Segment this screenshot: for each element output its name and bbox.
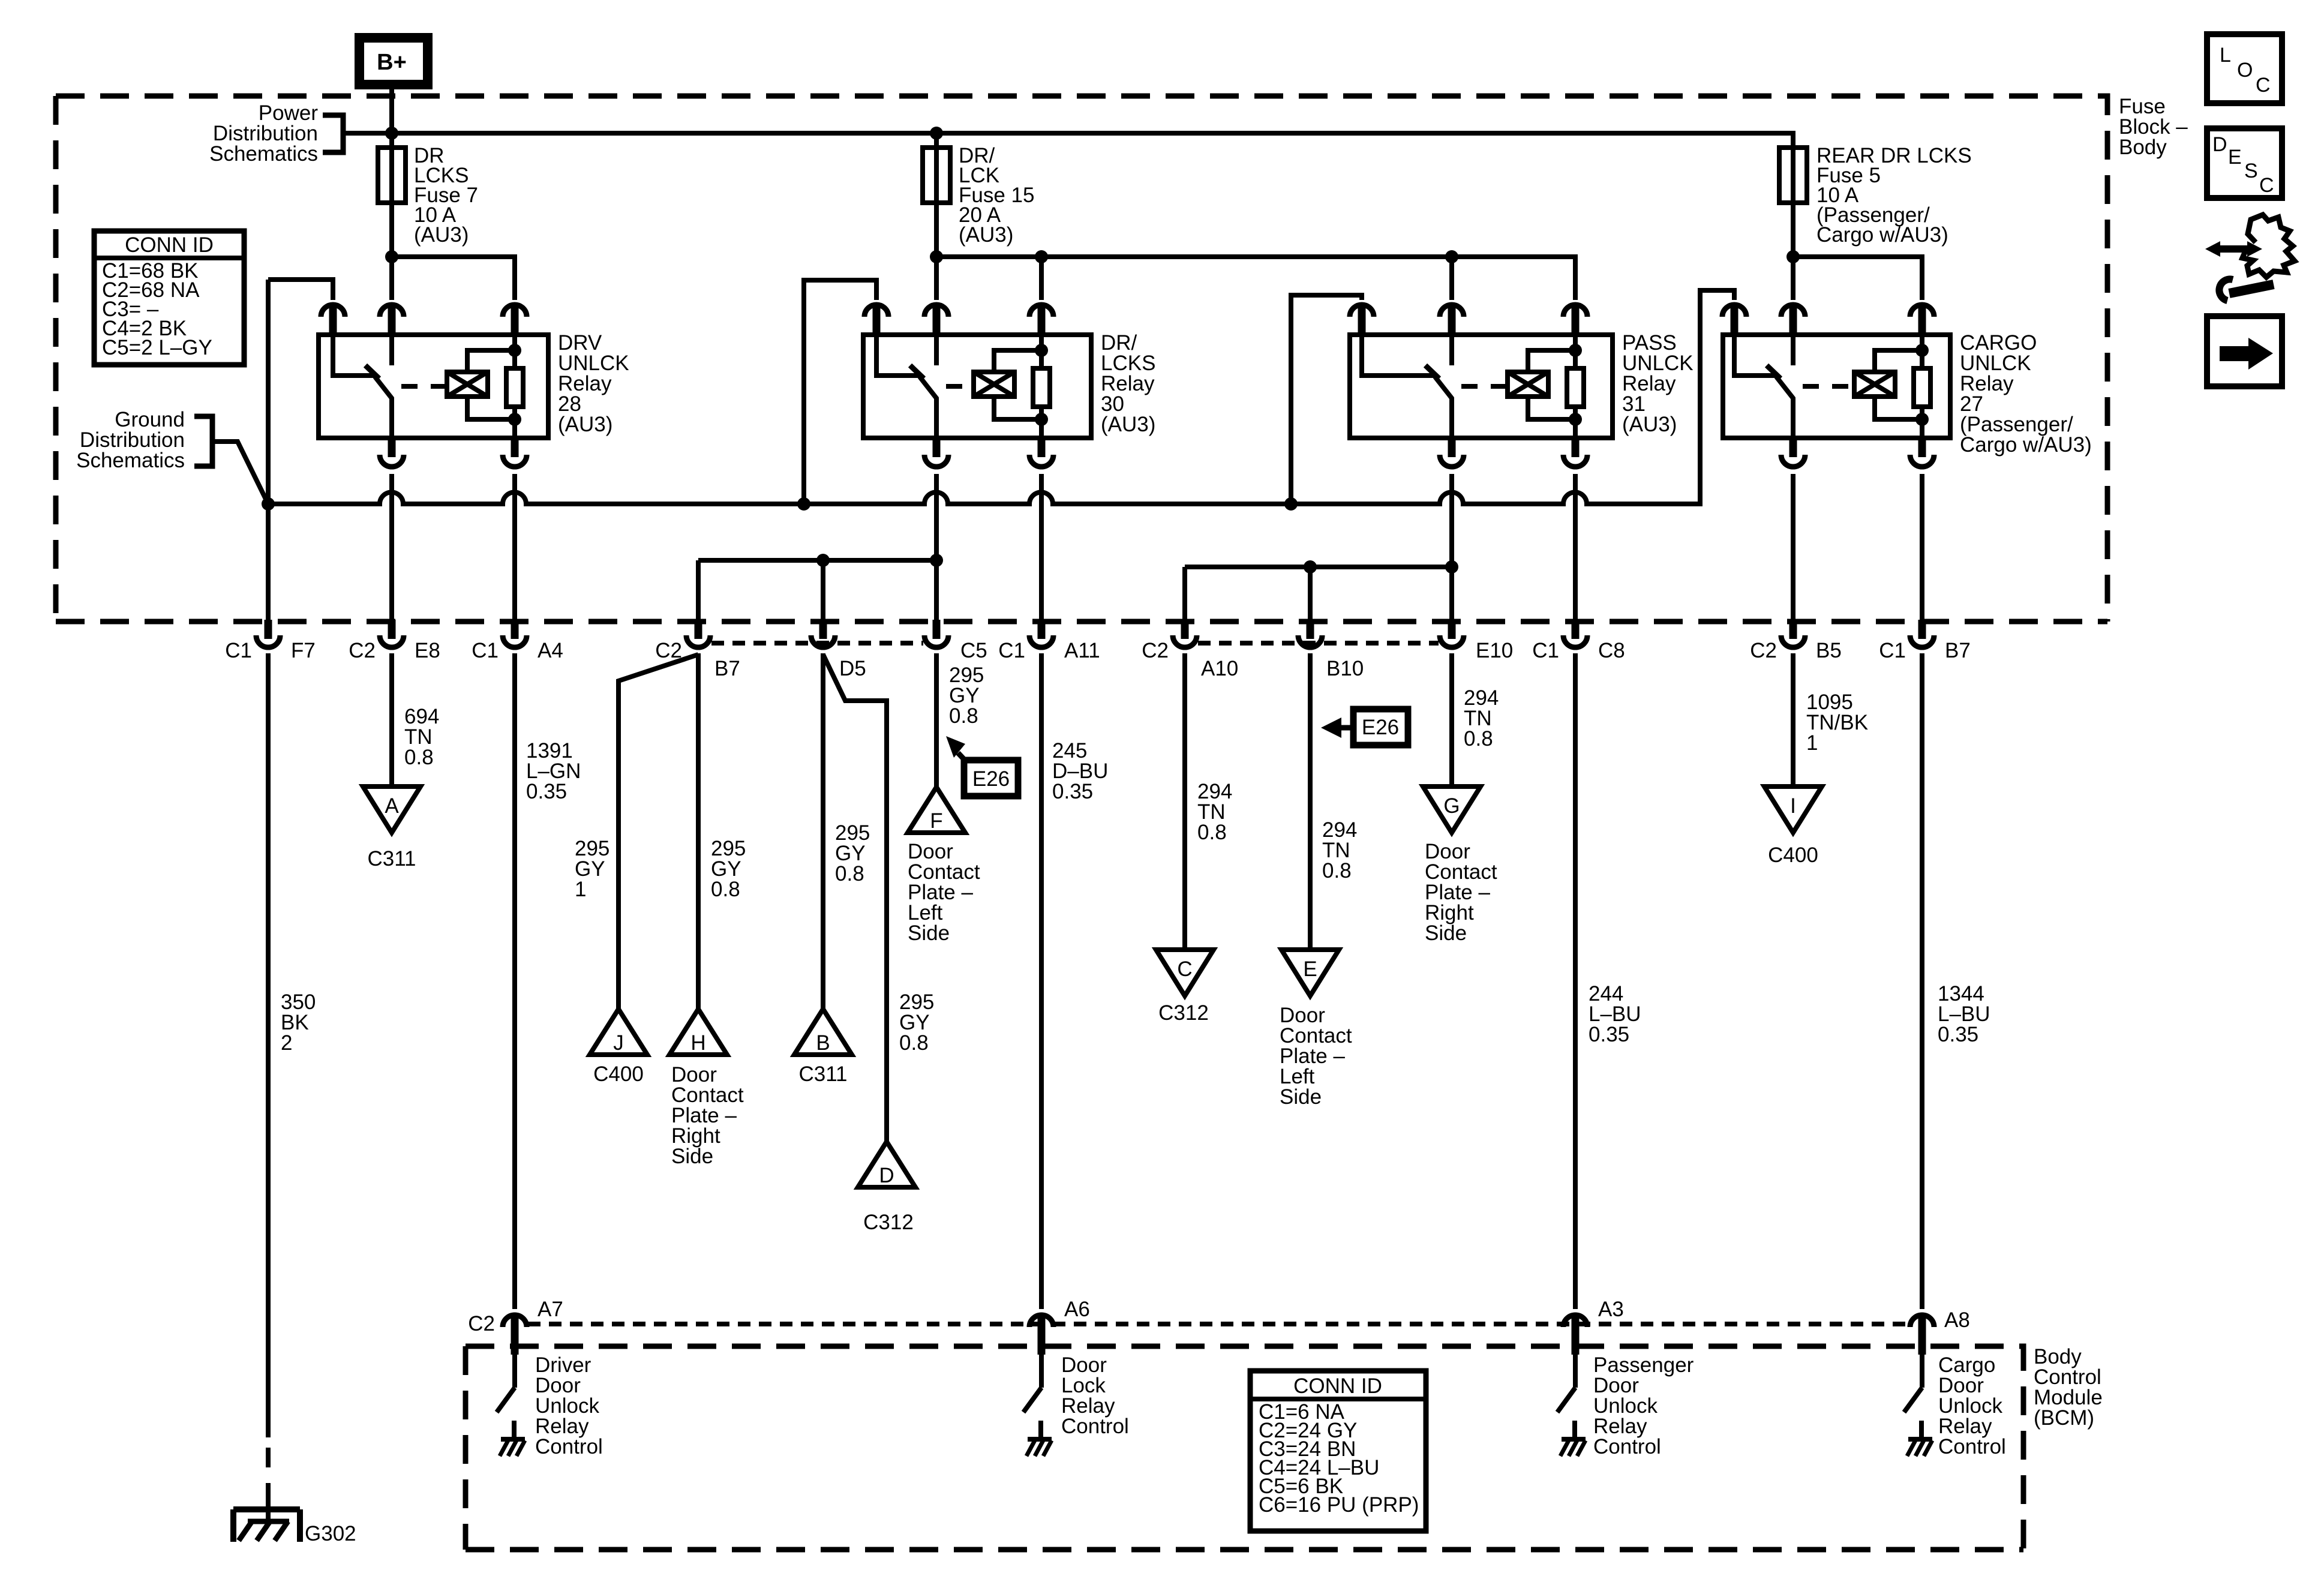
svg-text:G302: G302 xyxy=(305,1522,356,1545)
wire: fuse 7 output to relay 28 pins xyxy=(392,203,515,300)
label: door lock relay control xyxy=(1061,1353,1129,1438)
wire: B+ to power distribution line xyxy=(389,89,394,148)
wire: fuse 5 output to relay 27 pins xyxy=(1793,203,1922,300)
svg-text:0.35: 0.35 xyxy=(1938,1023,1978,1046)
svg-text:A4: A4 xyxy=(538,639,563,662)
wire: relay 30 switch output to C5 xyxy=(934,474,939,622)
svg-text:1: 1 xyxy=(575,878,586,901)
connector pin A7 (BCM) xyxy=(503,1315,527,1355)
svg-text:C6=16 PU (PRP): C6=16 PU (PRP) xyxy=(1259,1493,1419,1517)
splice connector J (C400) xyxy=(590,1009,647,1055)
junction: K28 (DRV UNLCK Relay 28) coil bottom node xyxy=(508,413,521,426)
relay coil of K31 (PASS UNLCK Relay 31) xyxy=(1508,350,1575,419)
svg-text:F7: F7 xyxy=(291,639,316,662)
connector pin: K30 (DR/LCKS Relay 30) top pin 85 coil xyxy=(1029,305,1053,335)
connector pin A11 (fuse block bottom) xyxy=(1029,620,1053,647)
svg-text:E8: E8 xyxy=(415,639,440,662)
label: circuit 1344 L-BU 0.35 xyxy=(1938,982,1990,1046)
switch: door lock relay control xyxy=(1023,1355,1052,1456)
wire: relay 30 coil output to A11 xyxy=(1039,474,1044,622)
connector pin A3 (BCM) xyxy=(1563,1315,1587,1355)
label: Power Distribution Schematics xyxy=(209,101,318,166)
svg-text:(AU3): (AU3) xyxy=(1622,413,1677,436)
junction: C5 wire branch node xyxy=(930,554,943,567)
relay K31 (PASS UNLCK Relay 31) xyxy=(1350,335,1613,438)
wire 694 TN: E8 to splice A xyxy=(389,653,394,789)
connector pin: K28 (DRV UNLCK Relay 28) top pin 30 common xyxy=(380,305,404,335)
in-line connector dashed link A10..E10 xyxy=(1198,641,1439,646)
splice connector C (C312) xyxy=(1156,950,1214,996)
label: circuit 295 GY 0.8 (D) xyxy=(899,990,934,1055)
bracket: power distribution xyxy=(323,115,343,152)
svg-text:L: L xyxy=(2220,44,2231,67)
connector pin: K31 (PASS UNLCK Relay 31) top pin 86 feed xyxy=(1350,305,1374,335)
connector pin: K30 (DR/LCKS Relay 30) top pin 86 feed xyxy=(864,305,888,335)
svg-text:C5=2 L–GY: C5=2 L–GY xyxy=(102,336,212,359)
junction: ground bus to relay 30 xyxy=(797,497,810,511)
wire 295 GY: B7 to splice H xyxy=(696,653,701,1009)
svg-text:G: G xyxy=(1443,794,1460,818)
svg-text:(AU3): (AU3) xyxy=(959,223,1013,247)
connector pin E8 (fuse block bottom) xyxy=(380,620,404,647)
wire: relay 31 pin feed from ground bus xyxy=(1291,295,1362,504)
junction: fuse 7 output node xyxy=(385,250,398,263)
wire 294 TN: E10 to connector G xyxy=(1449,653,1454,789)
splice connector E (door contact plate left) xyxy=(1281,950,1339,996)
svg-text:C: C xyxy=(1177,957,1192,981)
wire: relay 28 switch output to E8 xyxy=(389,474,394,622)
connector I (C400) xyxy=(1764,786,1822,833)
junction: ground bus at relay 28 feed xyxy=(262,497,275,511)
svg-text:Cargo w/AU3): Cargo w/AU3) xyxy=(1960,433,2092,457)
svg-text:B7: B7 xyxy=(714,657,740,680)
BCM in-line connector dashed link A7..A8 xyxy=(528,1322,1909,1326)
svg-text:C1: C1 xyxy=(998,639,1025,662)
label: circuit 294 TN 0.8 (C) xyxy=(1197,780,1232,844)
splice connector H (door contact plate right) xyxy=(669,1009,727,1055)
svg-text:A10: A10 xyxy=(1201,657,1238,680)
connector pin: K31 (PASS UNLCK Relay 31) bottom switch output xyxy=(1440,437,1464,467)
label: cargo door unlock relay control xyxy=(1938,1353,2006,1458)
svg-text:0.35: 0.35 xyxy=(1052,780,1093,803)
switch: passenger door unlock relay control xyxy=(1557,1355,1586,1456)
junction: relay 30 coil tap xyxy=(1035,250,1048,263)
svg-text:CONN ID: CONN ID xyxy=(125,233,214,257)
label: circuit 294 TN 0.8 (E) xyxy=(1322,818,1357,882)
label: circuit 1095 TN/BK 1 xyxy=(1806,691,1868,755)
svg-text:2: 2 xyxy=(281,1031,292,1055)
wire 350 BK: F7 to ground G302 xyxy=(266,653,271,1437)
connector pin A10 (fuse block bottom) xyxy=(1173,620,1197,647)
label: fuse F5 (REAR DR LCKS Fuse 5 10A) value xyxy=(1816,144,1972,247)
svg-text:F: F xyxy=(930,809,942,833)
junction: B10 branch node xyxy=(1304,560,1317,574)
switch contact of K31 (PASS UNLCK Relay 31) xyxy=(1362,336,1452,438)
connector pin B5 (fuse block bottom) xyxy=(1781,620,1805,647)
connector pin B7 (fuse block bottom) xyxy=(686,620,710,647)
svg-text:I: I xyxy=(1790,794,1796,818)
icon: DESC box xyxy=(2207,128,2282,198)
svg-text:0.8: 0.8 xyxy=(1464,727,1493,751)
svg-text:C1: C1 xyxy=(1879,639,1906,662)
label: circuit 295 GY 1 xyxy=(575,837,609,901)
junction: B+ / Fuse 7 tap xyxy=(385,127,398,140)
svg-text:Side: Side xyxy=(671,1145,713,1168)
svg-text:A: A xyxy=(385,794,399,818)
label: relay K28 (DRV UNLCK Relay 28) name xyxy=(558,331,629,436)
svg-text:C5: C5 xyxy=(960,639,987,662)
junction: fuse 15 output node xyxy=(930,250,943,263)
svg-text:C312: C312 xyxy=(1158,1001,1209,1025)
label: circuit 350 BK 2 xyxy=(281,990,316,1055)
label: relay K27 (CARGO UNLCK Relay 27) name xyxy=(1960,331,2092,457)
wire 295 GY: B7 branch to splice J xyxy=(618,655,698,1009)
label: passenger door unlock relay control xyxy=(1593,1353,1694,1458)
wire: ground bracket pointer xyxy=(212,442,268,504)
svg-text:E10: E10 xyxy=(1476,639,1513,662)
fuse F7 (DR LCKS Fuse 7 10A) xyxy=(378,148,406,203)
svg-text:0.8: 0.8 xyxy=(711,878,740,901)
label: Door Contact Plate - Right Side (H) xyxy=(671,1063,744,1168)
wire 1344 L-BU: B7 to BCM A8 xyxy=(1920,653,1924,1309)
svg-text:D: D xyxy=(2212,133,2227,156)
fuse F5 (REAR DR LCKS Fuse 5 10A) xyxy=(1779,148,1807,203)
svg-text:A7: A7 xyxy=(538,1298,563,1321)
wire 295 GY: D5 to splice B xyxy=(821,653,825,1009)
wire 294 TN: A10 to splice C xyxy=(1182,653,1187,953)
connector pin B7 (fuse block bottom) xyxy=(1910,620,1934,647)
wire: relay 28 coil output to A4 xyxy=(512,474,517,622)
connector pin F7 (fuse block bottom) xyxy=(256,620,280,647)
label: Door Contact Plate - Right Side (G) xyxy=(1425,840,1497,945)
relay K27 (CARGO UNLCK Relay 27) actuator dashed link xyxy=(1803,384,1852,389)
wire: relay 28 pin feed from ground wire xyxy=(268,280,333,300)
svg-text:C2: C2 xyxy=(1750,639,1777,662)
svg-text:J: J xyxy=(613,1031,624,1055)
svg-text:E: E xyxy=(1303,957,1317,981)
junction: ground bus to relay 31 xyxy=(1284,497,1298,511)
wire 295 GY: C5 to connector F xyxy=(934,653,939,787)
svg-text:(BCM): (BCM) xyxy=(2034,1406,2094,1430)
resistor (suppression) of K28 (DRV UNLCK Relay 28) xyxy=(506,336,523,438)
ground G302 xyxy=(233,1509,300,1542)
wire: fuse 15 output to relay 30 and relay 31 pins xyxy=(936,203,1575,300)
connector pin D5 (fuse block bottom) xyxy=(811,620,835,647)
svg-text:O: O xyxy=(2237,59,2253,82)
label: Fuse Block - Body xyxy=(2119,95,2188,159)
svg-text:B7: B7 xyxy=(1945,639,1971,662)
svg-text:D5: D5 xyxy=(839,657,866,680)
svg-text:C311: C311 xyxy=(798,1062,847,1086)
svg-text:0.8: 0.8 xyxy=(1322,859,1352,882)
connector pin E10 (fuse block bottom) xyxy=(1440,620,1464,647)
connector pin C8 (fuse block bottom) xyxy=(1563,620,1587,647)
svg-text:D: D xyxy=(879,1164,894,1187)
svg-text:B+: B+ xyxy=(377,50,407,75)
splice connector D (C312) xyxy=(858,1142,915,1187)
wire: dashed portion to G302 xyxy=(266,1448,271,1500)
BCM dashed outline (Body Control Module) xyxy=(466,1346,2023,1550)
svg-text:Schematics: Schematics xyxy=(209,142,318,166)
svg-text:(AU3): (AU3) xyxy=(414,223,469,247)
label: circuit 694 TN 0.8 xyxy=(404,705,439,769)
svg-text:E26: E26 xyxy=(972,767,1010,791)
wire: relay 30 pin feed from ground bus xyxy=(804,280,876,504)
callout E26 with arrow (F wire) xyxy=(946,736,1018,796)
svg-text:0.8: 0.8 xyxy=(949,704,978,728)
wire 294 TN: B10 to splice E xyxy=(1308,653,1313,953)
label: relay K30 (DR/LCKS Relay 30) name xyxy=(1101,331,1155,436)
wire: relay 27 switch output to B5 xyxy=(1791,474,1795,622)
junction: relay 31 switch tap xyxy=(1445,250,1458,263)
label: circuit 245 D-BU 0.35 xyxy=(1052,739,1108,803)
svg-text:B5: B5 xyxy=(1816,639,1842,662)
wire: relay 31 switch output to E10 xyxy=(1449,474,1454,622)
icon: forward arrow box xyxy=(2207,316,2282,386)
svg-text:Side: Side xyxy=(1425,921,1467,945)
relay coil of K30 (DR/LCKS Relay 30) xyxy=(974,350,1041,419)
resistor (suppression) of K27 (CARGO UNLCK Relay 27) xyxy=(1914,336,1930,438)
svg-text:0.8: 0.8 xyxy=(899,1031,929,1055)
connector pin: K31 (PASS UNLCK Relay 31) top pin 85 coil xyxy=(1563,305,1587,335)
relay K27 (CARGO UNLCK Relay 27) xyxy=(1723,335,1950,438)
wire: relay 27 coil output to B7 xyxy=(1920,474,1924,622)
svg-text:B: B xyxy=(816,1031,830,1055)
resistor (suppression) of K30 (DR/LCKS Relay 30) xyxy=(1033,336,1050,438)
junction: K27 (CARGO UNLCK Relay 27) coil bottom node xyxy=(1915,413,1929,426)
wire: fuse 15 feed from power line xyxy=(934,133,939,148)
junction: K30 (DR/LCKS Relay 30) coil bottom node xyxy=(1035,413,1048,426)
svg-text:C400: C400 xyxy=(593,1062,644,1086)
svg-text:C: C xyxy=(2259,174,2274,197)
connector pin: K28 (DRV UNLCK Relay 28) top pin 85 coil xyxy=(503,305,527,335)
svg-text:Body: Body xyxy=(2119,136,2167,159)
label: relay K31 (PASS UNLCK Relay 31) name xyxy=(1622,331,1694,436)
svg-text:E26: E26 xyxy=(1362,716,1399,739)
splice connector B (C311) xyxy=(794,1009,852,1055)
fuse F15 (DR/LCK Fuse 15 20A) xyxy=(923,148,950,203)
svg-text:C: C xyxy=(2256,74,2271,97)
svg-text:(AU3): (AU3) xyxy=(558,413,612,436)
label: circuit 295 GY 0.8 (F) xyxy=(949,664,984,728)
label: circuit 244 L-BU 0.35 xyxy=(1589,982,1641,1046)
connector pin: K28 (DRV UNLCK Relay 28) top pin 86 feed xyxy=(321,305,345,335)
label: circuit 295 GY 0.8 (H) xyxy=(711,837,746,901)
junction: Fuse 15 tap xyxy=(930,127,943,140)
svg-text:C400: C400 xyxy=(1768,843,1818,867)
svg-text:A8: A8 xyxy=(1944,1308,1970,1332)
resistor (suppression) of K31 (PASS UNLCK Relay 31) xyxy=(1567,336,1584,438)
svg-text:1: 1 xyxy=(1806,731,1818,755)
wire: ground bus inside fuse block xyxy=(268,290,1734,504)
wire 244 L-BU: C8 to BCM A3 xyxy=(1573,653,1578,1309)
svg-text:C2: C2 xyxy=(349,639,376,662)
table: CONN ID (fuse block connectors) xyxy=(94,231,244,365)
svg-text:CONN ID: CONN ID xyxy=(1293,1374,1382,1398)
svg-text:A11: A11 xyxy=(1064,639,1100,662)
label: fuse F15 (DR/LCK Fuse 15 20A) value xyxy=(959,144,1034,247)
svg-text:B10: B10 xyxy=(1326,657,1364,680)
svg-text:E: E xyxy=(2228,146,2242,169)
label: Door Contact Plate - Left Side (F) xyxy=(908,840,980,945)
fuse block - body dashed outline xyxy=(56,96,2107,622)
switch contact of K30 (DR/LCKS Relay 30) xyxy=(876,336,937,438)
in-line connector dashed link B7..C5 xyxy=(711,641,923,646)
power symbol B+ xyxy=(359,38,428,85)
wire 1391 L-GN: A4 to BCM A7 xyxy=(512,653,517,1309)
callout E26 with arrow (B10 wire) xyxy=(1321,709,1408,745)
connector pin: K30 (DR/LCKS Relay 30) bottom switch output xyxy=(924,437,948,467)
switch: cargo door unlock relay control xyxy=(1904,1355,1932,1456)
wire: branch to A10/B10 connector pins xyxy=(1185,567,1452,622)
label: Body Control Module (BCM) xyxy=(2034,1345,2103,1430)
connector pin B10 (fuse block bottom) xyxy=(1298,620,1322,647)
relay coil of K27 (CARGO UNLCK Relay 27) xyxy=(1854,350,1922,419)
wire 245 D-BU: A11 to BCM A6 xyxy=(1039,653,1044,1309)
wire 295 GY: D5 branch to splice D xyxy=(823,655,887,1142)
connector pin: K27 (CARGO UNLCK Relay 27) top pin 86 feed xyxy=(1722,305,1746,335)
svg-text:Cargo w/AU3): Cargo w/AU3) xyxy=(1816,223,1948,247)
connector pin: K30 (DR/LCKS Relay 30) bottom coil output xyxy=(1029,437,1053,467)
junction: K30 (DR/LCKS Relay 30) coil top node xyxy=(1035,344,1048,357)
relay K30 (DR/LCKS Relay 30) actuator dashed link xyxy=(946,384,972,389)
table: CONN ID (BCM connectors) xyxy=(1250,1371,1426,1531)
wire: relay 31 coil output to C8 xyxy=(1573,474,1578,622)
svg-text:C2: C2 xyxy=(1142,639,1169,662)
label: circuit 1391 L-GN 0.35 xyxy=(526,739,581,803)
connector pin: K27 (CARGO UNLCK Relay 27) bottom switch output xyxy=(1781,437,1805,467)
svg-text:C2: C2 xyxy=(468,1312,495,1335)
svg-text:0.8: 0.8 xyxy=(1197,821,1227,844)
svg-text:H: H xyxy=(690,1031,705,1055)
bracket: ground distribution xyxy=(194,416,212,466)
connector pin A8 (BCM) xyxy=(1910,1315,1934,1355)
svg-text:C312: C312 xyxy=(863,1211,914,1234)
switch contact of K28 (DRV UNLCK Relay 28) xyxy=(333,336,392,438)
junction: K31 (PASS UNLCK Relay 31) coil bottom node xyxy=(1569,413,1582,426)
connector pin: K27 (CARGO UNLCK Relay 27) top pin 30 common xyxy=(1781,305,1805,335)
switch contact of K27 (CARGO UNLCK Relay 27) xyxy=(1734,336,1794,438)
relay K28 (DRV UNLCK Relay 28) actuator dashed link xyxy=(401,384,445,389)
switch: driver door unlock relay control xyxy=(497,1355,525,1456)
label: circuit 295 GY 0.8 (B) xyxy=(835,821,870,885)
relay K31 (PASS UNLCK Relay 31) actuator dashed link xyxy=(1461,384,1506,389)
svg-text:Control: Control xyxy=(1938,1435,2006,1458)
junction: K27 (CARGO UNLCK Relay 27) coil top node xyxy=(1915,344,1929,357)
svg-text:Control: Control xyxy=(535,1435,603,1458)
svg-text:Side: Side xyxy=(908,921,950,945)
svg-text:C311: C311 xyxy=(367,847,416,870)
relay K30 (DR/LCKS Relay 30) xyxy=(863,335,1091,438)
svg-text:Side: Side xyxy=(1280,1085,1322,1109)
junction: D5 branch node xyxy=(816,554,830,567)
connector F (door contact plate left) xyxy=(908,787,965,833)
svg-text:0.8: 0.8 xyxy=(835,862,864,885)
connector pin: K27 (CARGO UNLCK Relay 27) top pin 85 coil xyxy=(1910,305,1934,335)
junction: K31 (PASS UNLCK Relay 31) coil top node xyxy=(1569,344,1582,357)
svg-text:Control: Control xyxy=(1593,1435,1661,1458)
splice connector A (C311) xyxy=(363,786,421,833)
svg-text:A3: A3 xyxy=(1598,1298,1624,1321)
icon: LOC box xyxy=(2207,34,2282,103)
svg-text:Control: Control xyxy=(1061,1415,1129,1438)
connector pin: K28 (DRV UNLCK Relay 28) bottom coil output xyxy=(503,437,527,467)
wire: branch to B7/D5 connector pins xyxy=(698,560,936,622)
svg-text:C1: C1 xyxy=(472,639,499,662)
svg-text:(AU3): (AU3) xyxy=(1101,413,1155,436)
label: circuit 294 TN 0.8 (G) xyxy=(1464,686,1499,751)
label: Door Contact Plate - Left Side (E) xyxy=(1280,1004,1352,1109)
connector pin A6 (BCM) xyxy=(1029,1315,1053,1355)
relay K28 (DRV UNLCK Relay 28) xyxy=(319,335,548,438)
connector G (door contact plate right) xyxy=(1423,786,1481,833)
connector pin: K27 (CARGO UNLCK Relay 27) bottom coil output xyxy=(1910,437,1934,467)
connector pin: K30 (DR/LCKS Relay 30) top pin 30 common xyxy=(924,305,948,335)
svg-text:C1: C1 xyxy=(1532,639,1559,662)
connector pin C5 (fuse block bottom) xyxy=(924,620,948,647)
wire: power distribution bus xyxy=(343,133,1793,148)
connector pin: K31 (PASS UNLCK Relay 31) top pin 30 common xyxy=(1440,305,1464,335)
label: Ground Distribution Schematics xyxy=(76,408,185,472)
svg-text:S: S xyxy=(2244,160,2258,182)
svg-text:0.35: 0.35 xyxy=(526,780,567,803)
wire 1095 TN/BK: B5 to connector I xyxy=(1791,653,1795,789)
junction: K28 (DRV UNLCK Relay 28) coil top node xyxy=(508,344,521,357)
svg-text:C1: C1 xyxy=(225,639,252,662)
label: fuse F7 (DR LCKS Fuse 7 10A) value xyxy=(414,144,478,247)
label: driver door unlock relay control xyxy=(535,1353,603,1458)
svg-text:0.35: 0.35 xyxy=(1589,1023,1629,1046)
svg-text:Schematics: Schematics xyxy=(76,449,185,472)
relay coil of K28 (DRV UNLCK Relay 28) xyxy=(447,350,515,419)
junction: E10 wire branch node xyxy=(1445,560,1458,574)
connector pin: K28 (DRV UNLCK Relay 28) bottom switch output xyxy=(380,437,404,467)
icon: wiring repair (arrows / wire / wrench) xyxy=(2205,215,2295,301)
svg-text:A6: A6 xyxy=(1064,1298,1090,1321)
wire: ground wire relay 28 to F7 xyxy=(266,280,271,622)
connector pin: K31 (PASS UNLCK Relay 31) bottom coil output xyxy=(1563,437,1587,467)
svg-text:0.8: 0.8 xyxy=(404,746,434,769)
junction: fuse 5 output node xyxy=(1786,250,1800,263)
svg-text:C8: C8 xyxy=(1598,639,1625,662)
connector pin A4 (fuse block bottom) xyxy=(503,620,527,647)
